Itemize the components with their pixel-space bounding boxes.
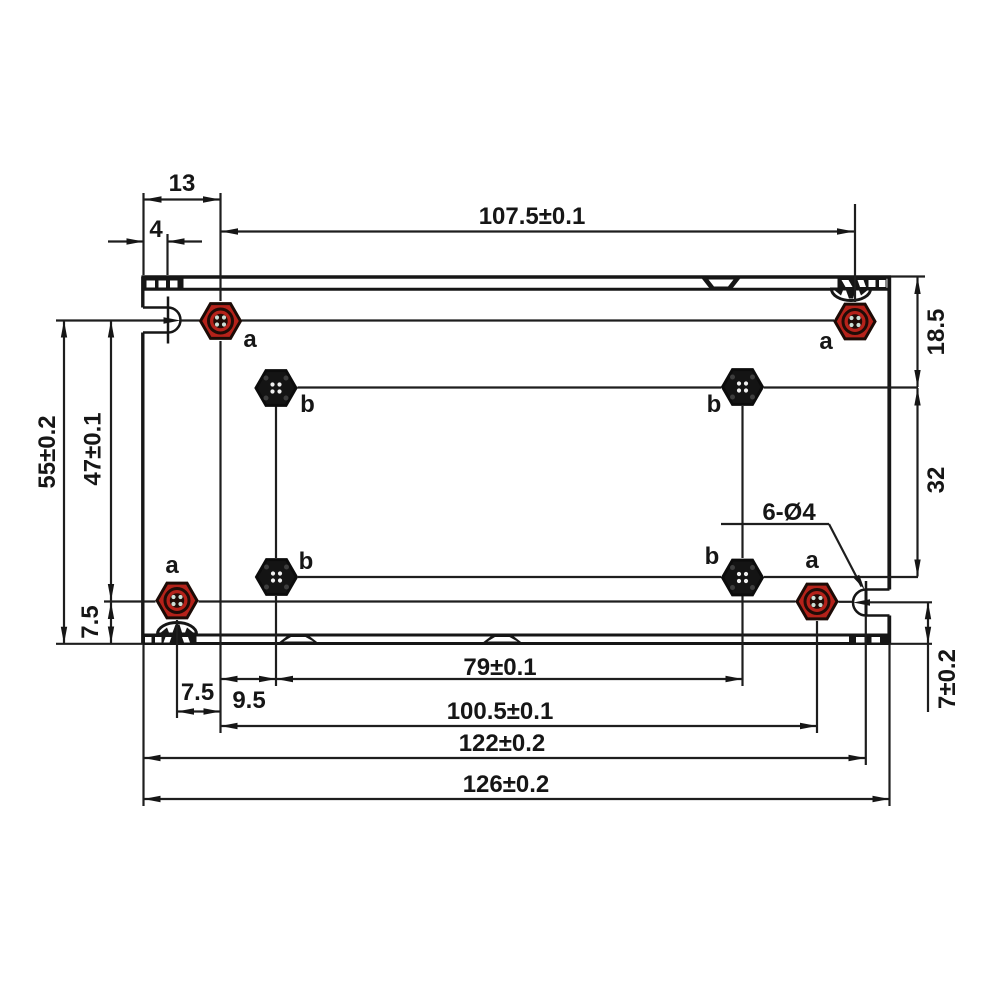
column line a bottom-left — [176, 620, 178, 718]
extension line bottom edge right — [890, 643, 933, 645]
part top edge outer line — [142, 275, 892, 279]
part bottom edge outer line — [143, 642, 890, 645]
svg-text:4: 4 — [149, 216, 163, 243]
svg-text:126±0.2: 126±0.2 — [463, 771, 550, 798]
bottom-right vent band — [849, 634, 890, 645]
nut b bottom-left — [257, 560, 297, 595]
svg-text:a: a — [243, 326, 257, 353]
nut b bottom-right — [723, 560, 763, 595]
extension line left edge bottom — [142, 645, 144, 807]
column line b right — [741, 406, 743, 686]
column line a bottom-right — [816, 621, 818, 733]
svg-text:9.5: 9.5 — [232, 687, 265, 714]
extension line top edge right — [891, 275, 925, 277]
dimension 18.5 — [914, 277, 950, 387]
svg-text:7.5: 7.5 — [77, 605, 104, 638]
row line a top — [56, 319, 834, 321]
svg-text:a: a — [165, 552, 179, 579]
svg-text:7.5: 7.5 — [181, 679, 214, 706]
dimension 13 — [145, 170, 221, 203]
leader 6-O4 — [721, 499, 865, 590]
dimension 55 — [34, 321, 67, 644]
column line b left — [275, 406, 277, 686]
svg-text:47±0.1: 47±0.1 — [80, 412, 107, 485]
dimension 4 — [108, 216, 202, 245]
extension line 4mm — [166, 234, 168, 275]
nut a top-right — [835, 304, 875, 339]
right mounting slot — [853, 581, 890, 616]
dimension 126 — [144, 771, 890, 802]
nut b top-left — [256, 371, 296, 406]
dimension 100.5 — [221, 698, 818, 729]
extension line right edge bottom — [888, 645, 890, 807]
row line b top — [298, 386, 919, 388]
column line a top-right — [854, 204, 856, 302]
svg-text:32: 32 — [923, 467, 950, 494]
part left edge — [141, 277, 144, 644]
svg-text:a: a — [819, 328, 833, 355]
column line a top-left — [219, 193, 221, 733]
svg-text:18.5: 18.5 — [923, 309, 950, 356]
nut a bottom-right — [797, 584, 837, 619]
top-right rivet boss arc — [832, 289, 871, 301]
extension line bottom edge left — [56, 643, 143, 645]
svg-text:55±0.2: 55±0.2 — [34, 415, 61, 488]
svg-text:b: b — [705, 543, 720, 570]
svg-text:b: b — [707, 391, 722, 418]
dimension 7 right — [925, 602, 961, 712]
row line a bottom — [104, 600, 932, 603]
svg-text:100.5±0.1: 100.5±0.1 — [447, 698, 554, 725]
svg-text:a: a — [805, 547, 819, 574]
extension line left edge top — [142, 193, 144, 275]
extension line right slot bottom — [865, 616, 867, 766]
top-left vent band — [142, 277, 184, 291]
nut a bottom-left — [157, 583, 197, 618]
dimension 7.5 left — [77, 602, 114, 644]
dimension 47 — [80, 321, 115, 602]
dimension 107.5 — [221, 203, 854, 235]
left mounting slot — [143, 297, 180, 344]
top-right vent band — [838, 277, 887, 291]
dimension 7.5 bottom — [177, 679, 221, 715]
left slot arrowhead — [164, 317, 181, 323]
top edge louver notch — [701, 278, 741, 290]
bottom edge louver notch right — [482, 635, 524, 644]
svg-text:b: b — [300, 391, 315, 418]
row line b bottom — [298, 576, 918, 578]
bottom-left rivet boss arc — [158, 623, 197, 635]
dimension 32 — [914, 388, 950, 577]
nut a top-left — [201, 304, 241, 339]
svg-text:b: b — [299, 548, 314, 575]
right slot arrowhead — [853, 599, 870, 605]
svg-text:6-Ø4: 6-Ø4 — [762, 499, 816, 526]
part right edge — [887, 277, 891, 644]
dimension 122 — [144, 730, 866, 761]
bottom edge louver notch left — [278, 635, 320, 644]
part top edge inner line — [142, 288, 892, 291]
bottom-left vent band — [142, 634, 197, 645]
dimension 9.5 and 79 chain — [221, 654, 743, 714]
part bottom edge inner line — [143, 634, 890, 637]
nut b top-right — [723, 370, 763, 405]
svg-text:107.5±0.1: 107.5±0.1 — [479, 203, 586, 230]
svg-text:122±0.2: 122±0.2 — [459, 730, 546, 757]
svg-text:13: 13 — [169, 170, 196, 197]
svg-text:7±0.2: 7±0.2 — [934, 649, 961, 709]
svg-text:79±0.1: 79±0.1 — [463, 654, 536, 681]
